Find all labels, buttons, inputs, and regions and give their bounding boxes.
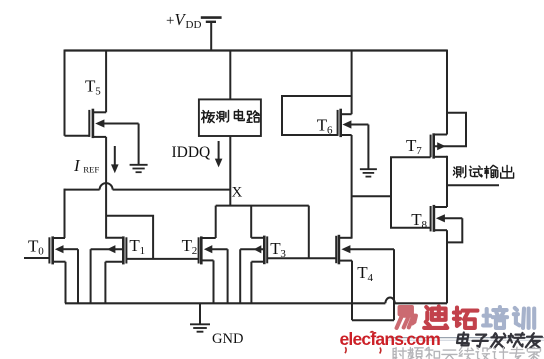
svg-text:8: 8 (422, 219, 428, 231)
svg-text:4: 4 (368, 272, 374, 284)
svg-text:6: 6 (327, 124, 333, 136)
svg-text:7: 7 (416, 145, 422, 157)
svg-text:IDDQ: IDDQ (172, 144, 211, 161)
svg-text:3: 3 (280, 248, 286, 260)
svg-text:5: 5 (95, 86, 101, 98)
svg-text:1: 1 (140, 245, 146, 257)
svg-text:GND: GND (212, 331, 243, 347)
svg-text:DD: DD (186, 19, 202, 31)
svg-text:elecfans.com: elecfans.com (340, 329, 441, 349)
svg-text:+: + (166, 13, 174, 29)
svg-text:X: X (232, 184, 243, 200)
svg-text:0: 0 (38, 246, 44, 258)
svg-text:2: 2 (192, 245, 198, 257)
svg-text:REF: REF (83, 165, 99, 175)
